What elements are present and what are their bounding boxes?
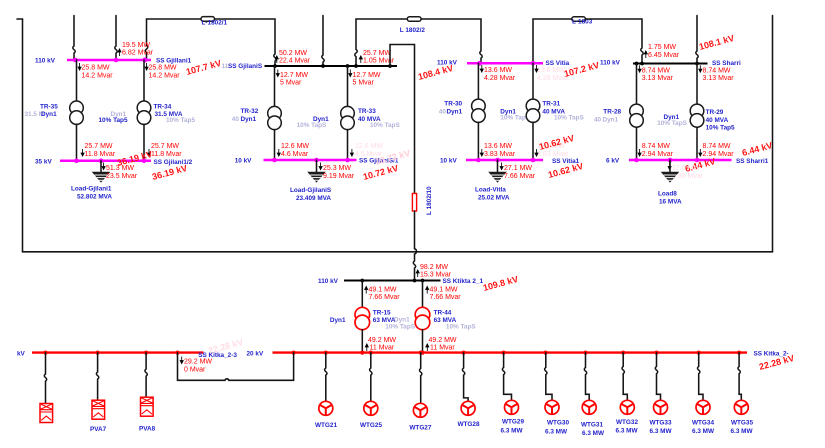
- svg-text:SS Sharri1: SS Sharri1: [736, 158, 769, 165]
- value 12.7 MW 5 Mvar right: [349, 70, 381, 87]
- label TR-15: [330, 309, 416, 330]
- svg-text:12.7 MW: 12.7 MW: [280, 72, 308, 79]
- svg-text:4.6 Mvar: 4.6 Mvar: [281, 151, 309, 158]
- svg-text:3.13 Mvar: 3.13 Mvar: [642, 75, 674, 82]
- value 27.1 MW 7.66 Mvar: [500, 163, 536, 180]
- svg-text:110 kV: 110 kV: [318, 278, 339, 285]
- svg-text:110 kV: 110 kV: [35, 58, 56, 65]
- bus SS Kitka_2 20 kV right segment: [273, 351, 748, 355]
- svg-text:49.2 MW: 49.2 MW: [368, 337, 396, 344]
- svg-text:8.74 MW: 8.74 MW: [703, 67, 731, 74]
- wire L 1802/2 to SS Vitia: [421, 19, 482, 63]
- svg-text:14.2 Mvar: 14.2 Mvar: [82, 72, 114, 79]
- svg-text:25.02 MVA: 25.02 MVA: [478, 195, 510, 202]
- svg-text:10% TapS: 10% TapS: [554, 115, 584, 122]
- svg-text:7.66 Mvar: 7.66 Mvar: [369, 294, 401, 301]
- svg-text:10 kV: 10 kV: [440, 158, 457, 165]
- label TR-29 nameplate centre: [657, 114, 687, 127]
- wire riser SS GjilaniS to L 1802/2: [355, 19, 407, 65]
- svg-text:2.94 Mvar: 2.94 Mvar: [703, 151, 735, 158]
- bus SS Vitia1 10 kV: [466, 158, 543, 163]
- svg-text:15.3 Mvar: 15.3 Mvar: [420, 271, 452, 278]
- bus SS GjilaniS/1 10 kV: [264, 158, 357, 163]
- svg-text:Load-Vitla: Load-Vitla: [475, 187, 506, 194]
- svg-text:WTG29: WTG29: [502, 419, 524, 426]
- svg-text:Dyn1: Dyn1: [41, 111, 57, 118]
- generator WTG30: [545, 400, 569, 435]
- line L-1803: [572, 17, 593, 26]
- value 13.6 MW 3.83 Mvar: [480, 143, 515, 158]
- transformer TR-29: [690, 64, 704, 160]
- transformer TR-32: [268, 66, 282, 160]
- generator PVA7 feeder: [96, 353, 98, 400]
- svg-text:5 Mvar: 5 Mvar: [280, 79, 302, 86]
- svg-text:49.2 MW: 49.2 MW: [429, 337, 457, 344]
- svg-text:L 1802/10: L 1802/10: [426, 186, 433, 215]
- svg-text:10% TapS: 10% TapS: [370, 122, 400, 129]
- generator WTG29 feeder: [502, 353, 511, 401]
- label TR-28: [594, 109, 622, 124]
- line L 1802/2: [400, 17, 426, 34]
- svg-text:11.8 Mvar: 11.8 Mvar: [85, 151, 116, 158]
- svg-text:Dyn1: Dyn1: [447, 108, 463, 115]
- svg-text:9.19 Mvar: 9.19 Mvar: [323, 173, 355, 180]
- svg-text:5 Mvar: 5 Mvar: [353, 79, 375, 86]
- generator PVA7: [90, 400, 107, 433]
- label TR-31: [542, 100, 584, 121]
- svg-text:6.3 MW: 6.3 MW: [730, 428, 753, 435]
- generator PVA6 feeder: [44, 353, 46, 403]
- svg-text:13.6 MW: 13.6 MW: [484, 67, 512, 74]
- svg-text:WTG32: WTG32: [616, 419, 638, 426]
- svg-text:110 kV: 110 kV: [600, 60, 621, 67]
- generator WTG25 feeder: [370, 353, 372, 402]
- svg-text:Load8: Load8: [658, 191, 677, 198]
- label TR-35: [25, 103, 59, 118]
- svg-text:7.66 Mvar: 7.66 Mvar: [430, 294, 462, 301]
- value 50.2 MW 22.4 Mvar: [275, 50, 310, 65]
- generator WTG33 feeder: [655, 353, 660, 401]
- generator WTG33: [649, 400, 672, 435]
- value 49.2 MW 11 Mvar left: [365, 337, 396, 352]
- generator WTG21: [315, 401, 337, 429]
- wire L-1802/1 to SS GjilaniS: [215, 19, 277, 65]
- svg-text:23.409 MVA: 23.409 MVA: [296, 195, 331, 202]
- value 8.74 MW 2.94 Mvar right: [699, 143, 734, 158]
- line L-1802/1: [201, 17, 228, 27]
- svg-text:25.8 MW: 25.8 MW: [82, 65, 110, 72]
- svg-text:40: 40: [439, 108, 447, 115]
- svg-text:10% Tap5: 10% Tap5: [166, 117, 195, 124]
- wire line L 1802/10 from SS GjilaniS: [390, 45, 415, 194]
- svg-text:2.94 Mvar: 2.94 Mvar: [642, 151, 674, 158]
- svg-text:1.75 MW: 1.75 MW: [648, 44, 676, 51]
- svg-text:49.1 MW: 49.1 MW: [369, 287, 397, 294]
- bus SS Ktikta 2_1 110 kV: [344, 279, 441, 283]
- svg-text:3.13 Mvar: 3.13 Mvar: [703, 75, 735, 82]
- load Load8: [662, 160, 678, 182]
- label Load8: [658, 191, 682, 206]
- svg-text:TR-29: TR-29: [706, 109, 724, 116]
- value 25.7 MW 11.8 Mvar left: [81, 143, 116, 158]
- svg-text:19.5 MW: 19.5 MW: [122, 42, 150, 49]
- bus SS Gjillani1 110 kV: [67, 58, 151, 63]
- transformer TR-44: [415, 281, 430, 353]
- label Load-Gjilani1: [71, 186, 112, 201]
- svg-text:23.5 Mvar: 23.5 Mvar: [106, 173, 138, 180]
- svg-text:6.3 MW: 6.3 MW: [615, 427, 638, 434]
- svg-text:10% TapS: 10% TapS: [657, 120, 687, 127]
- wire incoming line to SS Gjillani1 mid: [115, 16, 117, 60]
- svg-text:10 kV: 10 kV: [235, 158, 252, 165]
- svg-text:Load-Gjilani1: Load-Gjilani1: [71, 186, 112, 193]
- label TR-29: [706, 109, 735, 131]
- svg-text:13.6 MW: 13.6 MW: [537, 67, 565, 74]
- value 1.75 MW 6.45 Mvar: [644, 44, 679, 59]
- svg-text:TR-35: TR-35: [40, 103, 58, 110]
- wire incoming line to SS GjilaniS mid: [322, 16, 324, 66]
- svg-text:40 MVA: 40 MVA: [706, 117, 729, 124]
- svg-text:22.4 Mvar: 22.4 Mvar: [279, 57, 311, 64]
- svg-text:13.6 MW: 13.6 MW: [484, 143, 512, 150]
- wire frame top tick: [17, 18, 23, 20]
- svg-text:WTG31: WTG31: [581, 422, 603, 429]
- wire tie loop between bus segments: [178, 353, 294, 381]
- generator WTG34: [692, 400, 715, 435]
- wire riser SS Gjillani1 to L-1802/1: [145, 19, 201, 60]
- svg-text:WTG33: WTG33: [649, 420, 671, 427]
- line L 1802/10 red section: [412, 194, 416, 212]
- svg-text:25.3 MW: 25.3 MW: [323, 165, 351, 172]
- value 13.6 MW 4.28 Mvar: [480, 65, 515, 82]
- value 98.2 MW 15.3 Mvar: [416, 264, 452, 279]
- transformer TR-34: [137, 60, 151, 160]
- svg-text:10% TapS: 10% TapS: [385, 324, 415, 331]
- svg-text:SS Gjilani1/2: SS Gjilani1/2: [154, 159, 193, 166]
- value 25.7 MW 11.8 Mvar right: [148, 143, 183, 158]
- svg-text:Dyn1: Dyn1: [330, 317, 346, 324]
- svg-text:110 kV: 110 kV: [437, 59, 458, 66]
- svg-text:25.7 MW: 25.7 MW: [151, 143, 179, 150]
- value 25.8 MW 14.2 Mvar right: [145, 63, 180, 79]
- bus SS Sharri: [633, 62, 708, 66]
- svg-text:WTG21: WTG21: [315, 422, 337, 429]
- svg-text:20 kV: 20 kV: [247, 351, 264, 358]
- label TR-33 nameplate centre: [297, 116, 329, 129]
- label Load-Vitia: [475, 187, 510, 202]
- svg-text:98.2 MW: 98.2 MW: [420, 264, 448, 271]
- wire L 1802/10 to SS Ktikta 2_1 with crossing hop: [413, 211, 416, 280]
- value 49.1 MW 7.66 Mvar left: [365, 287, 401, 302]
- load Load-Gjilani1: [93, 161, 109, 182]
- generator PVA6: [40, 404, 53, 423]
- svg-text:25.7 MW: 25.7 MW: [85, 143, 113, 150]
- svg-text:3.83 Mvar: 3.83 Mvar: [484, 151, 516, 158]
- svg-text:10% Tap5: 10% Tap5: [706, 124, 735, 131]
- svg-text:WTG30: WTG30: [547, 420, 569, 427]
- svg-text:TR-31: TR-31: [542, 100, 560, 107]
- generator WTG28 feeder: [462, 353, 468, 402]
- generator WTG31 feeder: [584, 353, 589, 401]
- value 49.2 MW 11 Mvar right: [426, 337, 457, 352]
- svg-text:6.45 Mvar: 6.45 Mvar: [648, 52, 680, 59]
- generator PVA8 feeder: [145, 353, 147, 397]
- label SS GjilaniS: [222, 63, 263, 70]
- svg-text:11 Mvar: 11 Mvar: [370, 345, 395, 352]
- label TR-32: [232, 108, 259, 123]
- svg-text:14.2 Mvar: 14.2 Mvar: [149, 72, 181, 79]
- value 19.5 MW 6.82 Mvar: [118, 42, 154, 57]
- svg-text:kV: kV: [17, 351, 26, 358]
- svg-text:Load-GjilaniS: Load-GjilaniS: [290, 187, 332, 194]
- label Load-GjilaniS: [290, 187, 332, 202]
- svg-text:6.3 MW: 6.3 MW: [649, 428, 672, 435]
- label TR-33: [358, 108, 400, 129]
- wire frame bottom horizontal: [23, 251, 773, 253]
- svg-text:40: 40: [594, 116, 602, 123]
- svg-text:SS Vitia: SS Vitia: [546, 60, 570, 67]
- svg-text:6.82 Mvar: 6.82 Mvar: [122, 50, 154, 57]
- transformer TR-15: [355, 281, 370, 353]
- transformer TR-30: [472, 63, 486, 159]
- generator WTG29: [500, 400, 524, 434]
- svg-text:12.6 MW: 12.6 MW: [355, 143, 383, 150]
- svg-text:12.6 MW: 12.6 MW: [281, 143, 309, 150]
- bus SS Sharri1 6 kV: [629, 158, 732, 163]
- generator WTG27 feeder: [420, 353, 422, 404]
- value 49.1 MW 7.66 Mvar right: [426, 287, 462, 302]
- svg-text:TR-34: TR-34: [154, 103, 172, 110]
- svg-text:16 MVA: 16 MVA: [659, 199, 682, 206]
- value 25.7 MW 1.05 Mvar: [359, 50, 394, 65]
- value faded 17.6 MW 5.88 Mvar: [668, 163, 704, 180]
- svg-text:SS GjilaniS: SS GjilaniS: [228, 63, 263, 70]
- transformer TR-33: [341, 66, 355, 160]
- value faded 13.6 MW 4.28 Mvar: [535, 65, 569, 82]
- svg-text:8.74 MW: 8.74 MW: [642, 143, 670, 150]
- svg-text:25.8 MW: 25.8 MW: [149, 65, 177, 72]
- svg-text:TR-28: TR-28: [603, 109, 621, 116]
- generator PVA8: [139, 397, 156, 432]
- svg-text:6 kV: 6 kV: [606, 158, 620, 165]
- value faded 12.6 MW 4.6 Mvar TR-33: [350, 143, 383, 158]
- generator WTG34 feeder: [698, 353, 704, 401]
- svg-text:10% TapS: 10% TapS: [297, 122, 327, 129]
- label TR-44: [394, 309, 476, 330]
- svg-text:6.3 MW: 6.3 MW: [692, 428, 715, 435]
- svg-text:40: 40: [232, 116, 240, 123]
- svg-text:SS Sharri: SS Sharri: [712, 60, 741, 67]
- svg-text:TR-32: TR-32: [241, 108, 259, 115]
- svg-text:L 1802/2: L 1802/2: [400, 27, 426, 34]
- svg-text:11 Mvar: 11 Mvar: [430, 345, 455, 352]
- svg-text:29.2 MW: 29.2 MW: [184, 358, 212, 365]
- svg-text:TR-44: TR-44: [434, 309, 452, 316]
- value 8.74 MW 3.13 Mvar left: [638, 65, 673, 82]
- label TR-30: [439, 100, 463, 115]
- svg-text:27.1 MW: 27.1 MW: [504, 165, 532, 172]
- svg-text:7.66 Mvar: 7.66 Mvar: [504, 173, 536, 180]
- generator WTG30 feeder: [545, 353, 552, 401]
- svg-text:SS Ktikta 2_1: SS Ktikta 2_1: [443, 278, 484, 285]
- wire incoming line to SS Gjillani1 left: [73, 16, 75, 60]
- transformer TR-31: [526, 63, 540, 159]
- svg-text:4.28 Mvar: 4.28 Mvar: [484, 75, 516, 82]
- svg-text:49.1 MW: 49.1 MW: [430, 287, 458, 294]
- svg-text:10% TapS: 10% TapS: [446, 324, 476, 331]
- value 29.2 MW 0 Mvar: [180, 357, 212, 374]
- svg-text:11.8 Mvar: 11.8 Mvar: [151, 151, 182, 158]
- generator WTG35 feeder: [738, 353, 741, 401]
- wire riser SS Vitia to L-1803: [533, 19, 572, 63]
- generator WTG27: [409, 403, 431, 431]
- wire incoming line to SS Sharri right: [696, 16, 698, 63]
- svg-text:3.83 Mvar: 3.83 Mvar: [537, 151, 569, 158]
- svg-text:50.2 MW: 50.2 MW: [279, 50, 307, 57]
- label TR-34: [154, 103, 196, 124]
- svg-text:TR-33: TR-33: [358, 108, 376, 115]
- svg-text:51.3 MW: 51.3 MW: [106, 165, 134, 172]
- label TR-31 nameplate centre: [500, 108, 530, 121]
- svg-text:8.74 MW: 8.74 MW: [642, 67, 670, 74]
- generator WTG32 feeder: [622, 353, 627, 401]
- svg-text:WTG25: WTG25: [360, 422, 382, 429]
- value 8.74 MW 3.13 Mvar right: [699, 65, 734, 82]
- svg-text:12.7 MW: 12.7 MW: [353, 72, 381, 79]
- svg-text:L-1802/1: L-1802/1: [202, 20, 228, 27]
- generator WTG28: [457, 401, 479, 428]
- load Load-Vitia: [489, 160, 505, 182]
- svg-text:SS Gjillani1: SS Gjillani1: [156, 58, 192, 65]
- svg-text:Dyn1: Dyn1: [603, 116, 619, 123]
- svg-text:0 Mvar: 0 Mvar: [184, 366, 206, 373]
- svg-text:Dyn1: Dyn1: [394, 317, 410, 324]
- svg-text:PVA8: PVA8: [139, 426, 156, 433]
- generator WTG25: [360, 401, 382, 429]
- svg-text:8.74 MW: 8.74 MW: [703, 143, 731, 150]
- bus SS GjilaniS: [265, 64, 398, 68]
- value 25.8 MW 14.2 Mvar left: [78, 63, 113, 79]
- svg-text:TR-30: TR-30: [444, 100, 462, 107]
- value 51.3 MW 23.5 Mvar: [102, 163, 138, 180]
- generator WTG32: [615, 400, 638, 434]
- value 12.6 MW 4.6 Mvar: [277, 143, 309, 158]
- value 25.3 MW 9.19 Mvar: [319, 163, 355, 180]
- generator WTG21 feeder: [325, 353, 327, 402]
- svg-text:PVA7: PVA7: [90, 426, 107, 433]
- svg-text:6.3 MW: 6.3 MW: [500, 427, 523, 434]
- label TR-34 nameplate centre: [99, 111, 128, 124]
- transformer TR-28: [630, 64, 644, 160]
- wire frame right vertical: [772, 16, 774, 252]
- svg-text:52.802 MVA: 52.802 MVA: [77, 194, 112, 201]
- bus SS Vitia 110 kV: [467, 61, 543, 66]
- value 12.7 MW 5 Mvar left: [276, 70, 308, 87]
- value 8.74 MW 2.94 Mvar left: [638, 143, 673, 158]
- load Load-GjilaniS: [308, 160, 324, 182]
- svg-text:25.7 MW: 25.7 MW: [363, 50, 391, 57]
- wire frame left vertical: [22, 19, 24, 252]
- generator WTG31: [581, 400, 605, 437]
- generator WTG35: [730, 400, 753, 435]
- svg-text:WTG28: WTG28: [457, 421, 479, 428]
- svg-text:Dyn1: Dyn1: [241, 116, 257, 123]
- wire L-1803 to SS Sharri: [585, 19, 643, 63]
- bus SS Gjilani1/2 35 kV: [60, 159, 151, 164]
- svg-text:TR-15: TR-15: [373, 309, 391, 316]
- svg-text:10% Tap5: 10% Tap5: [99, 117, 128, 124]
- bus SS Kitka_2-3 20 kV left segment: [32, 351, 204, 355]
- svg-text:6.3 MW: 6.3 MW: [582, 430, 605, 437]
- svg-text:WTG35: WTG35: [731, 420, 753, 427]
- transformer TR-35: [70, 60, 84, 160]
- svg-text:35 kV: 35 kV: [35, 158, 52, 165]
- svg-text:17.6 MW: 17.6 MW: [672, 165, 700, 172]
- value faded 13.6 MW 3.83 Mvar: [535, 143, 569, 158]
- svg-text:6.3 MW: 6.3 MW: [545, 428, 568, 435]
- svg-text:WTG27: WTG27: [409, 425, 431, 432]
- svg-text:WTG34: WTG34: [692, 420, 714, 427]
